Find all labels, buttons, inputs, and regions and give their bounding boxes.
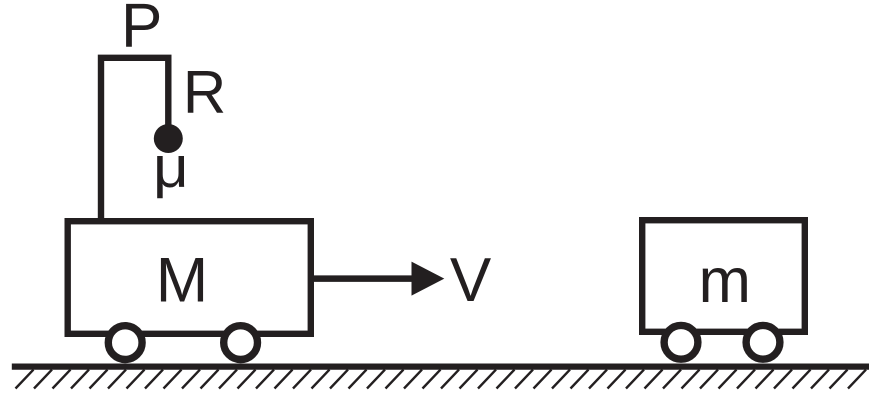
svg-text:m: m: [698, 246, 750, 316]
svg-text:R: R: [183, 59, 226, 126]
svg-text:M: M: [156, 245, 208, 315]
svg-text:P: P: [121, 0, 162, 61]
svg-text:V: V: [450, 246, 492, 315]
svg-text:μ: μ: [153, 134, 189, 200]
